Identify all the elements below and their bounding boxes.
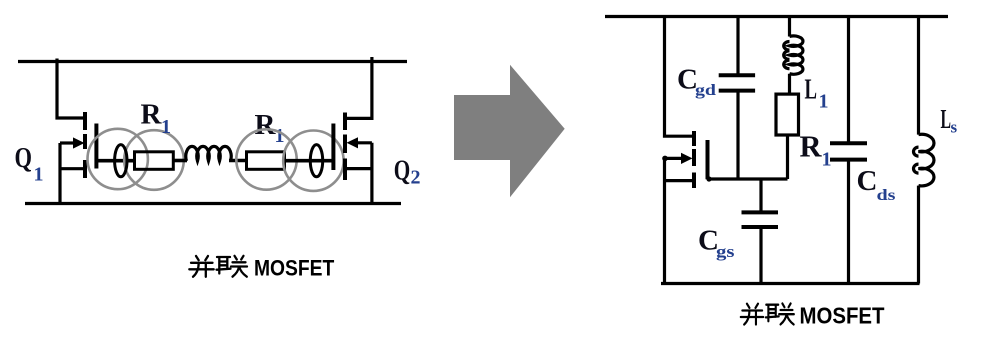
Q1 body arrow: [60, 137, 85, 148]
svg-text:L: L: [805, 74, 818, 106]
transistor Q2: [345, 57, 372, 204]
wire gate node: [706, 176, 787, 181]
wire bottom rail (source net): [661, 282, 920, 285]
label Cgd: [677, 64, 716, 99]
wire R1 to Q2 gate: [285, 159, 334, 163]
label Ls: [941, 104, 958, 137]
svg-text:MOSFET: MOSFET: [254, 255, 334, 280]
wire Q2 body-source: [345, 143, 372, 204]
svg-text:ds: ds: [877, 187, 896, 204]
loop marker ellipse 1: [115, 145, 127, 177]
svg-text:R: R: [141, 99, 163, 131]
svg-text:C: C: [857, 165, 878, 197]
svg-text:Q: Q: [15, 142, 33, 174]
hanzi BING: [741, 304, 763, 325]
wire Q1 gate to R1 network: [96, 159, 134, 163]
label Q1: [15, 142, 44, 186]
loop circle C (gray): [236, 129, 296, 189]
wire M drain: [665, 15, 695, 136]
loop marker ellipse 2: [310, 145, 322, 177]
resistor R1 (left of pair): [135, 152, 174, 170]
hanzi BING: [189, 256, 213, 277]
svg-text:Q: Q: [394, 155, 411, 187]
wire Q1 body-source: [60, 143, 85, 204]
loop circle D (gray): [283, 131, 343, 191]
Q1 channel contact ticks: [83, 112, 87, 178]
svg-text:s: s: [951, 118, 958, 137]
arrow (transform indicator): [454, 65, 565, 198]
svg-text:1: 1: [819, 91, 829, 113]
loop circle A (gray): [88, 129, 148, 189]
wire top rail (drain bus): [18, 60, 407, 63]
label L1: [805, 74, 829, 113]
capacitor Cds: [830, 15, 867, 284]
wire M body-source: [665, 158, 695, 283]
caption right: 并联 MOSFET: [741, 302, 885, 328]
inductor Ls: [914, 15, 934, 284]
label Q2: [394, 155, 421, 189]
svg-text:L: L: [941, 104, 952, 134]
transistor M (equivalent MOSFET): [665, 15, 695, 284]
svg-text:R: R: [800, 130, 823, 164]
svg-text:gd: gd: [695, 82, 716, 99]
label R1 (first): [141, 99, 172, 138]
hanzi LIAN: [217, 257, 231, 274]
wire R1 to coil: [173, 159, 187, 163]
wire Q2 drain: [345, 57, 372, 118]
capacitor Cgs: [742, 179, 779, 284]
svg-text:1: 1: [161, 116, 171, 138]
label R1 (second): [255, 109, 285, 147]
wire bottom rail (source bus): [25, 202, 401, 205]
wire coil to R1 second: [229, 159, 247, 163]
wire top rail (drain net): [605, 15, 948, 18]
loop circle B (gray): [124, 130, 184, 190]
svg-text:gs: gs: [716, 242, 735, 261]
inductor L1: [784, 15, 803, 94]
hanzi LIAN: [766, 305, 779, 322]
resistor R1 (damping): [776, 94, 799, 135]
svg-text:1: 1: [275, 125, 285, 147]
M body arrow: [662, 153, 692, 164]
wire Q1 drain: [57, 59, 85, 119]
Q2 gate bar: [331, 124, 335, 171]
M channel contact ticks: [692, 131, 696, 188]
transistor Q1: [57, 59, 85, 204]
Q2 body arrow: [347, 137, 372, 148]
svg-text:R: R: [255, 109, 277, 141]
svg-text:2: 2: [411, 167, 421, 189]
Q1 gate bar: [94, 124, 98, 169]
resistor R1 (right of pair): [247, 152, 285, 170]
label Cgs: [698, 224, 735, 260]
label Cds: [857, 165, 896, 204]
svg-text:MOSFET: MOSFET: [800, 302, 885, 328]
svg-text:1: 1: [34, 164, 44, 186]
Q2 channel contact ticks: [343, 113, 347, 181]
caption left: 并联 MOSFET: [189, 255, 334, 280]
capacitor Cgd: [719, 15, 755, 179]
M gate bar: [706, 140, 710, 179]
wire R1 to gate node: [786, 135, 789, 179]
label R1 (right): [800, 130, 832, 171]
inductor (gate loop coil): [186, 146, 231, 161]
